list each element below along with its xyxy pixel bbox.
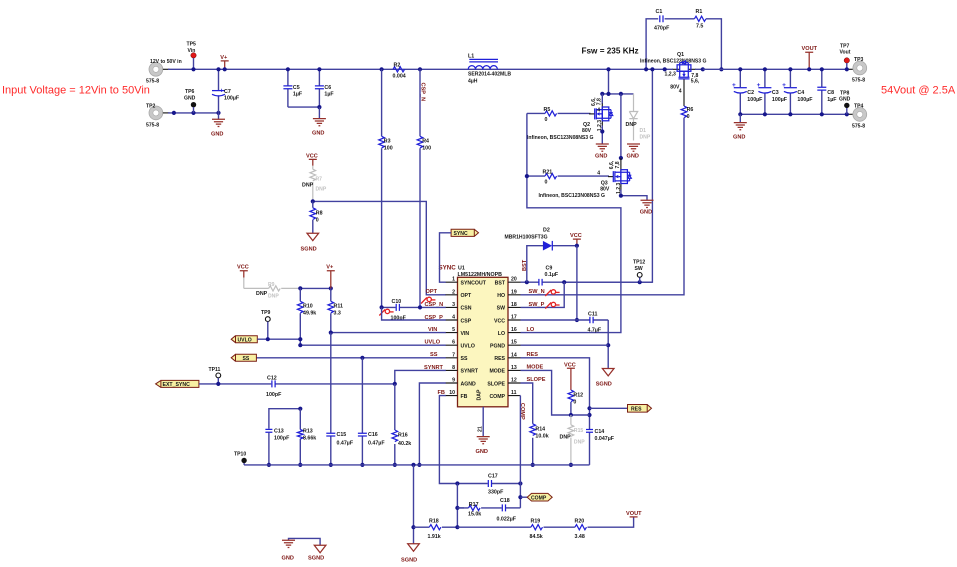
svg-text:4µH: 4µH bbox=[468, 78, 478, 84]
resistor R12 0 bbox=[568, 390, 583, 415]
wire HO net to R6 bbox=[521, 118, 685, 295]
svg-text:C11: C11 bbox=[588, 311, 597, 317]
wire FB leg bbox=[439, 396, 457, 484]
svg-text:Vout: Vout bbox=[840, 50, 851, 56]
resistor R9 DNP grey bbox=[244, 282, 300, 300]
ground GND under D1 bbox=[627, 144, 641, 159]
svg-text:0.047µF: 0.047µF bbox=[595, 436, 615, 442]
svg-text:R14: R14 bbox=[535, 426, 545, 432]
inductor L1 SER2014 4uH bbox=[468, 54, 511, 85]
svg-text:R6: R6 bbox=[687, 107, 694, 113]
svg-text:20: 20 bbox=[511, 277, 517, 283]
svg-text:R7: R7 bbox=[316, 177, 323, 183]
svg-text:12: 12 bbox=[511, 378, 517, 384]
U1 left pin stubs bbox=[446, 282, 458, 395]
wire output ground rail bbox=[738, 112, 853, 116]
svg-text:SS: SS bbox=[461, 356, 468, 362]
wire CSP line bbox=[382, 307, 446, 320]
svg-text:C8: C8 bbox=[827, 90, 834, 96]
svg-text:100pF: 100pF bbox=[274, 435, 290, 441]
resistor R8 0 bbox=[310, 201, 323, 233]
test point TP9 bbox=[261, 310, 271, 339]
svg-text:SGND: SGND bbox=[301, 247, 317, 253]
terminal TP3 bbox=[852, 57, 867, 83]
svg-text:HO: HO bbox=[497, 293, 505, 299]
svg-text:C12: C12 bbox=[267, 375, 277, 381]
svg-text:100µF: 100µF bbox=[772, 97, 788, 103]
svg-text:100: 100 bbox=[422, 146, 431, 152]
resistor R17 15.0k bbox=[455, 484, 501, 528]
svg-text:+: + bbox=[757, 82, 761, 89]
transistor Q3 BSC123N08NS3 bbox=[539, 158, 632, 199]
net label MODE bbox=[527, 365, 544, 371]
svg-text:C5: C5 bbox=[293, 85, 300, 91]
svg-text:7.5: 7.5 bbox=[696, 24, 703, 30]
svg-text:GND: GND bbox=[595, 153, 607, 159]
ground SGND under C11 bbox=[596, 369, 614, 388]
svg-text:AGND: AGND bbox=[461, 381, 477, 387]
svg-text:17: 17 bbox=[511, 315, 517, 321]
svg-text:8: 8 bbox=[452, 365, 455, 371]
resistor R7 DNP grey bbox=[302, 166, 327, 202]
resistor R19 84.5k bbox=[457, 519, 575, 541]
svg-text:L1: L1 bbox=[468, 54, 474, 60]
svg-text:TP11: TP11 bbox=[209, 367, 221, 373]
capacitor C10 100pF bbox=[379, 299, 445, 321]
resistor R11 3.3 bbox=[328, 288, 343, 334]
transistor Q2 BSC123N08NS3 bbox=[527, 94, 613, 141]
flag UVLO bbox=[231, 336, 257, 344]
net label OPT bbox=[421, 289, 437, 303]
svg-text:TP6: TP6 bbox=[185, 89, 195, 95]
svg-text:0: 0 bbox=[573, 400, 576, 406]
capacitor C7 100uF bbox=[212, 67, 240, 113]
svg-text:VIN: VIN bbox=[461, 331, 470, 337]
svg-text:C13: C13 bbox=[274, 428, 284, 434]
power VCC above D2 bbox=[570, 233, 582, 248]
net label LO bbox=[527, 327, 535, 333]
svg-text:SLOPE: SLOPE bbox=[487, 381, 505, 387]
svg-text:GND: GND bbox=[282, 555, 294, 561]
resistor R4 100 bbox=[417, 69, 431, 307]
U1 pin numbers right bbox=[511, 277, 517, 396]
svg-text:2: 2 bbox=[452, 289, 455, 295]
svg-text:UVLO: UVLO bbox=[238, 338, 252, 344]
svg-text:21: 21 bbox=[478, 426, 484, 432]
wire RES net bbox=[521, 358, 592, 465]
test point TP12 SW bbox=[633, 259, 645, 282]
svg-text:DNP: DNP bbox=[560, 434, 572, 440]
flag EXT_SYNC bbox=[156, 380, 199, 388]
capacitor C15 0.47uF bbox=[326, 333, 354, 467]
svg-text:TP9: TP9 bbox=[261, 310, 271, 316]
capacitor C14 0.047uF bbox=[586, 429, 615, 442]
svg-text:C17: C17 bbox=[488, 473, 498, 479]
wire VCC pin17 line bbox=[521, 319, 609, 321]
svg-text:VCC: VCC bbox=[494, 318, 505, 324]
svg-text:Infineon, BSC123N08NS3 G: Infineon, BSC123N08NS3 G bbox=[640, 58, 707, 64]
svg-text:0.47µF: 0.47µF bbox=[368, 441, 385, 447]
power V+ left mid bbox=[326, 265, 335, 289]
capacitor C6 1uF bbox=[315, 67, 334, 107]
svg-text:SW_N: SW_N bbox=[529, 289, 545, 295]
svg-text:Infineon, BSC123N08NS3 G: Infineon, BSC123N08NS3 G bbox=[539, 193, 606, 199]
svg-text:4: 4 bbox=[597, 107, 600, 113]
resistor R16 40.2k bbox=[392, 384, 411, 467]
svg-text:DNP: DNP bbox=[640, 134, 651, 140]
capacitor C5 1uF bbox=[283, 67, 302, 107]
power V+ at input bbox=[220, 55, 228, 72]
wire input ground rail bbox=[168, 111, 221, 115]
wire SYNRT leg bbox=[395, 370, 446, 384]
power VCC left mid bbox=[237, 265, 249, 289]
svg-text:COMP: COMP bbox=[489, 394, 505, 400]
U1 DAP pin 21 ground bbox=[476, 407, 490, 455]
svg-text:10: 10 bbox=[449, 390, 455, 396]
svg-text:TP5: TP5 bbox=[187, 42, 197, 48]
svg-text:RES: RES bbox=[631, 407, 642, 413]
svg-text:C10: C10 bbox=[392, 299, 402, 305]
wire COMP pin11 vertical bbox=[518, 396, 522, 508]
svg-text:R4: R4 bbox=[422, 139, 429, 145]
annotation input voltage bbox=[2, 85, 150, 97]
capacitor C4 100uF bbox=[782, 67, 813, 114]
svg-text:PGND: PGND bbox=[490, 344, 505, 350]
svg-text:DNP: DNP bbox=[626, 122, 638, 128]
svg-text:R5: R5 bbox=[544, 107, 551, 113]
svg-text:84.5k: 84.5k bbox=[530, 534, 543, 540]
svg-text:0: 0 bbox=[545, 180, 548, 186]
svg-text:1µF: 1µF bbox=[827, 97, 837, 103]
svg-text:18: 18 bbox=[511, 302, 517, 308]
net label SS bbox=[430, 352, 438, 358]
svg-text:100µF: 100µF bbox=[747, 97, 763, 103]
resistor R13 8.66k bbox=[297, 409, 316, 467]
svg-text:7,8: 7,8 bbox=[615, 161, 621, 168]
power VCC above R7 bbox=[306, 153, 318, 165]
svg-text:MBR1H100SFT3G: MBR1H100SFT3G bbox=[505, 234, 548, 240]
net label BST vertical bbox=[522, 259, 528, 271]
svg-text:16: 16 bbox=[511, 327, 517, 333]
resistor R5 0 gate Q2 bbox=[527, 107, 594, 123]
svg-text:DNP: DNP bbox=[268, 293, 279, 299]
test point TP6 GND bbox=[184, 89, 196, 113]
svg-text:C4: C4 bbox=[797, 90, 804, 96]
svg-text:10.0k: 10.0k bbox=[535, 433, 548, 439]
capacitor C16 0.47uF bbox=[358, 358, 385, 467]
svg-text:Infineon, BSC123N08NS3 G: Infineon, BSC123N08NS3 G bbox=[527, 135, 594, 141]
net label VIN bbox=[428, 327, 437, 333]
svg-text:Q1: Q1 bbox=[677, 52, 684, 58]
svg-text:TP7: TP7 bbox=[840, 43, 850, 49]
svg-text:C9: C9 bbox=[546, 265, 553, 271]
svg-text:R10: R10 bbox=[303, 304, 313, 310]
svg-text:DNP: DNP bbox=[574, 439, 585, 445]
wire VIN line bbox=[331, 332, 446, 334]
capacitor C8 1uF bbox=[817, 67, 837, 114]
svg-text:V+: V+ bbox=[220, 55, 228, 61]
svg-text:12V to 50V in: 12V to 50V in bbox=[150, 59, 182, 65]
net label CSP_N bbox=[425, 302, 444, 308]
wire SYNCOUT to flag bbox=[440, 233, 452, 282]
resistor R10 49.9k bbox=[297, 288, 316, 345]
wire SS line bbox=[256, 356, 445, 360]
terminal TP2 bbox=[146, 104, 170, 129]
svg-text:9: 9 bbox=[452, 378, 455, 384]
svg-text:SYNRT: SYNRT bbox=[461, 369, 479, 375]
capacitor C11 4.7uF bbox=[588, 311, 602, 333]
svg-text:575-8: 575-8 bbox=[852, 124, 865, 130]
resistor R20 3.48 bbox=[575, 517, 634, 540]
op-amp U1 LM5122MH/NOPB body bbox=[439, 264, 509, 407]
svg-text:330pF: 330pF bbox=[488, 489, 504, 495]
svg-text:1µF: 1µF bbox=[293, 92, 303, 98]
svg-text:VOUT: VOUT bbox=[802, 46, 818, 52]
wire SW net TP12 line bbox=[562, 280, 652, 284]
svg-text:0.022µF: 0.022µF bbox=[497, 516, 517, 522]
svg-text:CSN: CSN bbox=[461, 306, 472, 312]
net CSP_N vertical label bbox=[419, 83, 425, 102]
svg-text:3: 3 bbox=[452, 302, 455, 308]
svg-text:SGND: SGND bbox=[308, 555, 324, 561]
flag RES bbox=[590, 405, 652, 413]
ground GND under C7 bbox=[211, 113, 225, 137]
net label CSP_P bbox=[425, 315, 444, 321]
svg-text:C16: C16 bbox=[368, 432, 378, 438]
resistor R18 1.91k bbox=[414, 519, 460, 541]
svg-text:7: 7 bbox=[452, 352, 455, 358]
svg-text:GND: GND bbox=[733, 135, 745, 141]
test point TP7 Vout bbox=[840, 43, 851, 71]
U1 right pin stubs bbox=[508, 282, 521, 395]
svg-text:0: 0 bbox=[545, 117, 548, 123]
svg-text:GND: GND bbox=[184, 96, 196, 102]
svg-text:49.9k: 49.9k bbox=[303, 311, 316, 317]
svg-text:COMP: COMP bbox=[531, 496, 547, 502]
svg-text:C6: C6 bbox=[324, 85, 331, 91]
svg-text:+: + bbox=[732, 82, 736, 89]
svg-text:100µF: 100µF bbox=[224, 96, 240, 102]
svg-text:8.66k: 8.66k bbox=[303, 435, 316, 441]
ground GND-SGND bridge bbox=[282, 538, 326, 561]
svg-text:80V: 80V bbox=[582, 128, 592, 134]
capacitor C3 100uF bbox=[757, 67, 788, 114]
ground GND output bbox=[733, 114, 747, 140]
svg-text:VOUT: VOUT bbox=[626, 511, 642, 517]
wire OPT net bbox=[311, 199, 446, 295]
svg-text:3.48: 3.48 bbox=[575, 534, 585, 540]
resistor R1 7.5 snubber bbox=[694, 9, 723, 71]
power VOUT symbol bbox=[802, 46, 818, 71]
diode D1 DNP grey bbox=[626, 94, 651, 141]
svg-text:TP3: TP3 bbox=[854, 57, 864, 63]
svg-text:40.2k: 40.2k bbox=[398, 441, 411, 447]
wire C5-C6 ground tie bbox=[288, 105, 322, 109]
svg-text:1.91k: 1.91k bbox=[428, 534, 441, 540]
ground GND under Q3 bbox=[619, 190, 654, 216]
svg-text:R16: R16 bbox=[398, 432, 408, 438]
svg-text:15.0k: 15.0k bbox=[468, 511, 481, 517]
svg-text:0.004: 0.004 bbox=[393, 73, 406, 79]
net label RES bbox=[527, 352, 539, 358]
svg-text:VCC: VCC bbox=[570, 233, 582, 239]
test point TP5 Vin bbox=[187, 42, 197, 72]
svg-text:GND: GND bbox=[211, 131, 223, 137]
svg-text:SGND: SGND bbox=[596, 382, 612, 388]
capacitor C1 470pF snubber bbox=[644, 9, 694, 71]
wire SW node drop bbox=[564, 67, 654, 282]
svg-text:GND: GND bbox=[476, 449, 488, 455]
svg-text:OPT: OPT bbox=[426, 289, 438, 295]
U1 pin names right bbox=[487, 281, 505, 400]
capacitor C18 0.022uF bbox=[497, 498, 521, 522]
svg-text:GND: GND bbox=[312, 131, 324, 137]
flag COMP bbox=[520, 493, 552, 501]
svg-text:0: 0 bbox=[316, 217, 319, 223]
svg-text:5: 5 bbox=[452, 327, 455, 333]
svg-text:GND: GND bbox=[640, 210, 652, 216]
test point TP10 bbox=[234, 452, 247, 465]
annotation Fsw bbox=[582, 47, 639, 56]
svg-text:SYNC: SYNC bbox=[454, 231, 468, 237]
diode D2 MBR1H100SFT3G bbox=[505, 227, 577, 282]
resistor R14 10.0k bbox=[530, 424, 549, 440]
resistor R2 0.004 sense bbox=[380, 62, 423, 79]
power VOUT at feedback bbox=[626, 511, 642, 517]
svg-text:SER2014-402MLB: SER2014-402MLB bbox=[468, 72, 511, 78]
svg-text:470pF: 470pF bbox=[654, 26, 670, 32]
net label SW_N bbox=[529, 289, 560, 296]
wire AGND leg bbox=[417, 383, 446, 467]
net label SLOPE bbox=[527, 377, 546, 383]
svg-text:15: 15 bbox=[511, 340, 517, 346]
wire C11 to SGND bbox=[606, 320, 610, 369]
svg-text:R2: R2 bbox=[394, 62, 401, 68]
svg-text:C7: C7 bbox=[224, 89, 231, 95]
wire Q3 drain riser bbox=[619, 94, 623, 160]
svg-text:C15: C15 bbox=[337, 432, 347, 438]
svg-text:SYNC: SYNC bbox=[439, 264, 457, 271]
svg-text:BST: BST bbox=[522, 259, 528, 271]
svg-text:MODE: MODE bbox=[489, 369, 505, 375]
svg-text:RES: RES bbox=[494, 356, 505, 362]
svg-text:R9: R9 bbox=[268, 282, 275, 288]
svg-text:4.7µF: 4.7µF bbox=[588, 327, 602, 333]
svg-text:TP10: TP10 bbox=[234, 452, 246, 458]
svg-text:SS: SS bbox=[243, 356, 250, 362]
wire LO gate drive net bbox=[521, 113, 621, 332]
svg-text:CSP: CSP bbox=[461, 318, 472, 324]
svg-text:1µF: 1µF bbox=[324, 92, 334, 98]
svg-text:80V: 80V bbox=[600, 186, 610, 192]
transistor Q1 BSC123N08NS3 bbox=[640, 52, 707, 94]
svg-text:SGND: SGND bbox=[401, 557, 417, 563]
svg-text:LM5122MH/NOPB: LM5122MH/NOPB bbox=[458, 272, 503, 278]
flag SS bbox=[231, 354, 256, 362]
wire VCC vertical to pin17 bbox=[575, 246, 579, 322]
svg-text:GND: GND bbox=[627, 153, 639, 159]
svg-text:R17: R17 bbox=[469, 502, 479, 508]
ground GND under Q2 bbox=[595, 126, 609, 160]
svg-text:+: + bbox=[782, 82, 786, 89]
test point TP11 bbox=[209, 367, 221, 384]
capacitor C17 330pF bbox=[455, 473, 522, 495]
svg-text:VCC: VCC bbox=[306, 153, 318, 159]
wire SW pin18 leg bbox=[521, 282, 565, 307]
svg-text:C14: C14 bbox=[595, 429, 605, 435]
svg-text:100: 100 bbox=[384, 146, 393, 152]
net label UVLO bbox=[425, 340, 441, 346]
U1 pin names left bbox=[461, 281, 487, 400]
svg-text:3.3: 3.3 bbox=[334, 311, 341, 317]
svg-text:SW: SW bbox=[635, 266, 643, 272]
net label COMP vertical bbox=[519, 403, 525, 420]
ground GND under C6 bbox=[312, 107, 326, 137]
svg-text:19: 19 bbox=[511, 289, 517, 295]
svg-text:C18: C18 bbox=[500, 498, 510, 504]
wire MODE net bbox=[521, 370, 590, 417]
svg-text:6: 6 bbox=[452, 340, 455, 346]
svg-text:EXT_SYNC: EXT_SYNC bbox=[163, 382, 191, 388]
svg-text:100µF: 100µF bbox=[797, 97, 813, 103]
wire R9 node to V+ bbox=[298, 286, 333, 290]
svg-text:14: 14 bbox=[511, 352, 517, 358]
svg-text:LO: LO bbox=[527, 327, 535, 333]
svg-text:1: 1 bbox=[452, 277, 455, 283]
svg-text:R1: R1 bbox=[696, 9, 703, 15]
wire BST line bbox=[521, 280, 540, 284]
svg-text:VCC: VCC bbox=[564, 362, 576, 368]
wire SGND leg lower bbox=[401, 465, 419, 563]
svg-text:0.1µF: 0.1µF bbox=[545, 272, 559, 278]
svg-text:Fsw = 235 KHz: Fsw = 235 KHz bbox=[582, 47, 639, 56]
svg-text:R19: R19 bbox=[531, 519, 541, 525]
svg-text:Input Voltage = 12Vin to 50Vin: Input Voltage = 12Vin to 50Vin bbox=[2, 85, 150, 97]
svg-text:4: 4 bbox=[679, 88, 682, 94]
svg-text:TP8: TP8 bbox=[840, 90, 850, 96]
svg-text:575-8: 575-8 bbox=[852, 77, 865, 83]
svg-text:DNP: DNP bbox=[316, 187, 327, 193]
svg-text:TP12: TP12 bbox=[633, 259, 645, 265]
svg-text:R12: R12 bbox=[573, 393, 583, 399]
svg-text:100pF: 100pF bbox=[266, 392, 282, 398]
svg-text:0.47µF: 0.47µF bbox=[337, 441, 354, 447]
wire VOUT rail bbox=[703, 68, 853, 70]
svg-text:C2: C2 bbox=[747, 90, 754, 96]
svg-text:GND: GND bbox=[839, 97, 851, 103]
svg-text:54Vout @ 2.5A: 54Vout @ 2.5A bbox=[881, 85, 956, 97]
resistor R15 DNP grey bbox=[560, 415, 586, 465]
power VCC above R12 bbox=[564, 362, 576, 390]
svg-text:OPT: OPT bbox=[461, 293, 472, 299]
net label FB bbox=[438, 390, 445, 396]
svg-text:R13: R13 bbox=[303, 428, 313, 434]
svg-text:DNP: DNP bbox=[256, 291, 268, 297]
svg-text:TP2: TP2 bbox=[146, 104, 156, 110]
net label SW_P bbox=[529, 302, 560, 309]
wire Q2/D1 drain bus bbox=[600, 67, 633, 96]
wire SLOPE net bbox=[521, 383, 574, 467]
U1 pin numbers left bbox=[449, 277, 455, 396]
svg-text:5,6,: 5,6, bbox=[691, 79, 700, 85]
svg-text:DAP: DAP bbox=[477, 389, 483, 400]
svg-text:575-8: 575-8 bbox=[146, 122, 159, 128]
terminal TP4 bbox=[852, 104, 867, 130]
svg-text:D1: D1 bbox=[640, 128, 647, 134]
svg-text:R8: R8 bbox=[316, 210, 323, 216]
resistor R3 100 bbox=[379, 69, 393, 307]
svg-text:SW_P: SW_P bbox=[529, 302, 545, 308]
